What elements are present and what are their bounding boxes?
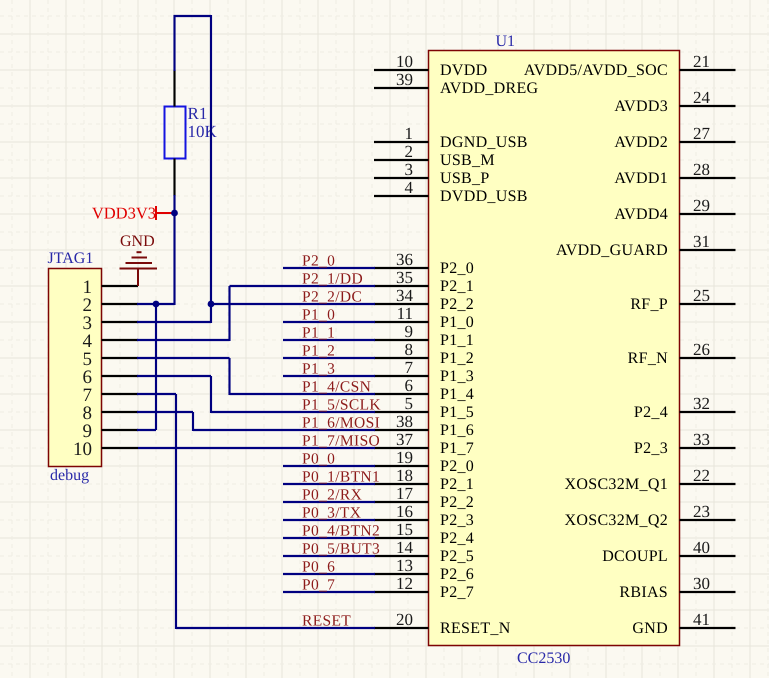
U1 pin 38 (P1_6) [374, 412, 474, 439]
svg-text:P1_5/SCLK: P1_5/SCLK [302, 397, 381, 414]
U1 pin 4 (DVDD_USB) [374, 178, 528, 205]
svg-text:P0_2/RX: P0_2/RX [302, 487, 362, 504]
svg-text:P2_6: P2_6 [440, 566, 474, 583]
svg-text:P2_1/DD: P2_1/DD [302, 271, 363, 288]
svg-text:9: 9 [405, 322, 414, 341]
power port GND (earth) [120, 252, 158, 286]
U1 pin 10 (DVDD) [374, 52, 487, 79]
wire net P2_0 row [283, 267, 375, 269]
svg-text:36: 36 [396, 250, 413, 269]
svg-text:P2_4: P2_4 [634, 404, 668, 421]
resistor R1 body [165, 107, 186, 159]
JTAG1 pin 3 [83, 313, 139, 334]
svg-text:debug: debug [50, 467, 89, 484]
svg-text:P2_1: P2_1 [440, 278, 474, 295]
svg-text:40: 40 [693, 538, 710, 557]
wire JTAG pin4 stub [137, 339, 230, 341]
svg-text:P2_1: P2_1 [440, 476, 474, 493]
svg-text:P1_2: P1_2 [302, 343, 335, 360]
connector JTAG1 body [49, 269, 102, 467]
U1 pin 12 (P2_7) [374, 574, 474, 601]
wire JTAG pin2 stub [137, 303, 156, 305]
svg-text:25: 25 [693, 286, 710, 305]
junction VDD3V3 [171, 210, 178, 217]
wire net P2_1/DD row [230, 285, 376, 287]
U1 pin 34 (P2_2) [374, 286, 474, 313]
wire net P0_1/BTN1 row [283, 483, 375, 485]
svg-text:P2_7: P2_7 [440, 584, 474, 601]
svg-text:P2_2: P2_2 [440, 494, 474, 511]
svg-text:37: 37 [396, 430, 414, 449]
U1 pin 32 (P2_4) [634, 394, 736, 421]
JTAG1 pin 1 [83, 277, 139, 298]
svg-text:22: 22 [693, 466, 710, 485]
wire pin5 down to CSN row [228, 358, 230, 395]
U1 pin 3 (USB_P) [374, 160, 490, 187]
svg-text:18: 18 [396, 466, 413, 485]
svg-text:P1_7/MISO: P1_7/MISO [302, 433, 380, 450]
wire net P0_2/RX row [283, 501, 375, 503]
svg-text:P0_3/TX: P0_3/TX [302, 505, 361, 522]
junction DC row/loop [208, 301, 215, 308]
svg-text:USB_P: USB_P [440, 170, 490, 187]
svg-text:DCOUPL: DCOUPL [602, 548, 668, 565]
svg-text:26: 26 [693, 340, 710, 359]
svg-text:P1_5: P1_5 [440, 404, 474, 421]
svg-text:5: 5 [405, 394, 414, 413]
wire top loop horizontal [174, 15, 212, 17]
svg-text:14: 14 [396, 538, 414, 557]
svg-text:17: 17 [396, 484, 414, 503]
svg-text:AVDD1: AVDD1 [614, 170, 668, 187]
U1 pin 8 (P1_2) [374, 340, 474, 367]
wire net P0_4/BTN2 row [283, 537, 375, 539]
svg-text:P2_0: P2_0 [440, 458, 474, 475]
JTAG1 pin 9 [83, 421, 139, 442]
U1 pin 18 (P2_1) [374, 466, 474, 493]
JTAG1 pin 4 [83, 331, 139, 352]
wire net P0_3/TX row [283, 519, 375, 521]
wire pin4 up to DD row [228, 286, 230, 341]
U1 pin 26 (RF_N) [628, 340, 736, 367]
U1 pin 21 (AVDD5/AVDD_SOC) [524, 52, 736, 79]
svg-text:AVDD5/AVDD_SOC: AVDD5/AVDD_SOC [524, 62, 668, 79]
svg-text:DVDD_USB: DVDD_USB [440, 188, 528, 205]
svg-text:7: 7 [405, 358, 414, 377]
svg-text:P1_7: P1_7 [440, 440, 474, 457]
U1 pin 36 (P2_0) [374, 250, 474, 277]
svg-text:P1_4: P1_4 [440, 386, 474, 403]
wire R1 bottom to pin2 row (VDD) [173, 195, 175, 305]
wire net P0_5/BUT3 row [283, 555, 375, 557]
svg-text:P2_5: P2_5 [440, 548, 474, 565]
svg-text:P0_1/BTN1: P0_1/BTN1 [302, 469, 380, 486]
U1 pin 15 (P2_4) [374, 520, 474, 547]
svg-text:XOSC32M_Q2: XOSC32M_Q2 [565, 512, 668, 529]
svg-text:15: 15 [396, 520, 413, 539]
svg-text:GND: GND [120, 233, 155, 250]
svg-text:31: 31 [693, 232, 710, 251]
svg-text:JTAG1: JTAG1 [48, 250, 94, 267]
wire pin6 down to SCLK row [210, 376, 212, 413]
U1 pin 25 (RF_P) [630, 286, 735, 313]
svg-text:P1_3: P1_3 [302, 361, 335, 378]
svg-text:CC2530: CC2530 [517, 650, 570, 667]
svg-text:P1_6/MOSI: P1_6/MOSI [302, 415, 380, 432]
svg-text:6: 6 [405, 376, 414, 395]
svg-text:DVDD: DVDD [440, 62, 487, 79]
svg-text:P2_0: P2_0 [302, 253, 335, 270]
wire net P0_6 row [283, 573, 375, 575]
wire net P0_7 row [283, 591, 375, 593]
U1 pin 2 (USB_M) [374, 142, 495, 169]
U1 pin 35 (P2_1) [374, 268, 474, 295]
svg-text:P2_2: P2_2 [440, 296, 474, 313]
svg-text:10K: 10K [188, 122, 218, 141]
JTAG1 pin 8 [83, 403, 139, 424]
svg-text:35: 35 [396, 268, 413, 287]
wire pin7 down to RESET row [175, 394, 177, 629]
U1 pin 16 (P2_3) [374, 502, 474, 529]
svg-text:AVDD4: AVDD4 [614, 206, 668, 223]
JTAG1 pin 5 [83, 349, 139, 370]
wire pin2 to R1 column [155, 303, 175, 305]
U1 pin 14 (P2_5) [374, 538, 474, 565]
U1 pin 22 (XOSC32M_Q1) [565, 466, 736, 493]
svg-text:27: 27 [693, 124, 711, 143]
svg-text:33: 33 [693, 430, 710, 449]
svg-text:AVDD_GUARD: AVDD_GUARD [556, 242, 668, 259]
svg-text:21: 21 [693, 52, 710, 71]
svg-text:2: 2 [405, 142, 414, 161]
svg-text:XOSC32M_Q1: XOSC32M_Q1 [565, 476, 668, 493]
svg-text:RESET: RESET [302, 613, 351, 630]
svg-text:RF_N: RF_N [628, 350, 668, 367]
svg-text:39: 39 [396, 70, 413, 89]
junction pin2/VDD [153, 301, 160, 308]
svg-text:P1_4/CSN: P1_4/CSN [302, 379, 371, 396]
svg-text:41: 41 [693, 610, 710, 629]
svg-text:AVDD2: AVDD2 [614, 134, 668, 151]
svg-text:12: 12 [396, 574, 413, 593]
svg-text:RF_P: RF_P [630, 296, 668, 313]
svg-text:P0_4/BTN2: P0_4/BTN2 [302, 523, 380, 540]
svg-text:P1_0: P1_0 [302, 307, 335, 324]
wire loop down to pin3 row [210, 15, 212, 323]
svg-text:10: 10 [73, 439, 92, 460]
wire net P1_1 row [283, 339, 375, 341]
svg-text:13: 13 [396, 556, 413, 575]
wire JTAG pin6 stub [137, 375, 211, 377]
svg-text:8: 8 [405, 340, 414, 359]
U1 pin 23 (XOSC32M_Q2) [565, 502, 736, 529]
svg-text:GND: GND [632, 620, 668, 637]
wire net P1_6/MOSI row [193, 429, 375, 431]
U1 pin 28 (AVDD1) [614, 160, 735, 187]
wire net P1_7/MISO row [138, 447, 375, 449]
svg-text:P2_4: P2_4 [440, 530, 474, 547]
svg-text:RBIAS: RBIAS [619, 584, 668, 601]
svg-text:34: 34 [396, 286, 414, 305]
U1 pin 37 (P1_7) [374, 430, 474, 457]
U1 pin 33 (P2_3) [634, 430, 736, 457]
IC U1 CC2530 body [429, 51, 680, 646]
svg-text:30: 30 [693, 574, 710, 593]
U1 pin 40 (DCOUPL) [602, 538, 735, 565]
JTAG1 pin 6 [83, 367, 139, 388]
svg-text:29: 29 [693, 196, 710, 215]
JTAG1 pin 2 [83, 295, 139, 316]
svg-text:P1_2: P1_2 [440, 350, 474, 367]
U1 pin 27 (AVDD2) [614, 124, 735, 151]
svg-text:P0_5/BUT3: P0_5/BUT3 [302, 541, 380, 558]
U1 pin 13 (P2_6) [374, 556, 474, 583]
U1 pin 7 (P1_3) [374, 358, 474, 385]
svg-text:20: 20 [396, 610, 413, 629]
svg-text:19: 19 [396, 448, 413, 467]
svg-text:P1_0: P1_0 [440, 314, 474, 331]
U1 pin 19 (P2_0) [374, 448, 474, 475]
wire pin8 down to MOSI row [192, 412, 194, 431]
U1 pin 9 (P1_1) [374, 322, 474, 349]
wire net P1_2 row [283, 357, 375, 359]
svg-text:1: 1 [405, 124, 414, 143]
U1 pin 20 (RESET_N) [374, 610, 511, 637]
svg-text:P0_7: P0_7 [302, 577, 335, 594]
svg-text:10: 10 [396, 52, 413, 71]
U1 pin 24 (AVDD3) [614, 88, 735, 115]
svg-text:AVDD_DREG: AVDD_DREG [440, 80, 539, 97]
svg-text:24: 24 [693, 88, 711, 107]
wire net P1_4/CSN row [230, 393, 376, 395]
svg-text:32: 32 [693, 394, 710, 413]
svg-text:DGND_USB: DGND_USB [440, 134, 528, 151]
svg-text:P1_1: P1_1 [440, 332, 474, 349]
wire JTAG pin7 stub [137, 393, 176, 395]
wire JTAG pin5 stub [137, 357, 230, 359]
U1 pin 41 (GND) [632, 610, 735, 637]
wire net P0_0 row [283, 465, 375, 467]
svg-text:AVDD3: AVDD3 [614, 98, 668, 115]
svg-text:P2_3: P2_3 [634, 440, 668, 457]
JTAG1 pin 7 [83, 385, 139, 406]
wire net RESET row [176, 627, 375, 629]
svg-text:P0_0: P0_0 [302, 451, 335, 468]
svg-text:USB_M: USB_M [440, 152, 495, 169]
svg-text:P0_6: P0_6 [302, 559, 335, 576]
svg-text:28: 28 [693, 160, 710, 179]
U1 pin 17 (P2_2) [374, 484, 474, 511]
svg-text:P1_6: P1_6 [440, 422, 474, 439]
svg-text:23: 23 [693, 502, 710, 521]
U1 pin 6 (P1_4) [374, 376, 474, 403]
svg-text:4: 4 [405, 178, 414, 197]
svg-text:RESET_N: RESET_N [440, 620, 511, 637]
wire net P2_2/DC row [211, 303, 376, 305]
wire JTAG pin3 stub [137, 321, 211, 323]
svg-text:U1: U1 [496, 33, 516, 50]
wire R1 top up [173, 15, 175, 71]
svg-text:P2_2/DC: P2_2/DC [302, 289, 362, 306]
svg-text:P1_3: P1_3 [440, 368, 474, 385]
wire net P1_3 row [283, 375, 375, 377]
U1 pin 39 (AVDD_DREG) [374, 70, 539, 97]
wire JTAG pin9 stub [137, 429, 156, 431]
wire VDD vertical pin2-pin9 [155, 304, 157, 430]
svg-text:P2_3: P2_3 [440, 512, 474, 529]
power port VDD3V3 [156, 206, 175, 220]
svg-text:38: 38 [396, 412, 413, 431]
svg-text:16: 16 [396, 502, 413, 521]
wire net P1_0 row [283, 321, 375, 323]
U1 pin 11 (P1_0) [374, 304, 474, 331]
svg-text:3: 3 [405, 160, 414, 179]
wire net P1_5/SCLK row [211, 411, 375, 413]
U1 pin 31 (AVDD_GUARD) [556, 232, 736, 259]
svg-text:P1_1: P1_1 [302, 325, 335, 342]
svg-text:VDD3V3: VDD3V3 [92, 204, 156, 223]
JTAG1 pin 10 [73, 439, 138, 460]
U1 pin 1 (DGND_USB) [374, 124, 528, 151]
U1 pin 30 (RBIAS) [619, 574, 735, 601]
svg-text:11: 11 [397, 304, 413, 323]
U1 pin 5 (P1_5) [374, 394, 474, 421]
svg-text:P2_0: P2_0 [440, 260, 474, 277]
R1 pin 1 (top) [173, 70, 175, 107]
R1 pin 2 (bottom) [173, 159, 175, 197]
U1 pin 29 (AVDD4) [614, 196, 735, 223]
wire JTAG pin8 stub [137, 411, 193, 413]
svg-text:R1: R1 [188, 104, 208, 123]
